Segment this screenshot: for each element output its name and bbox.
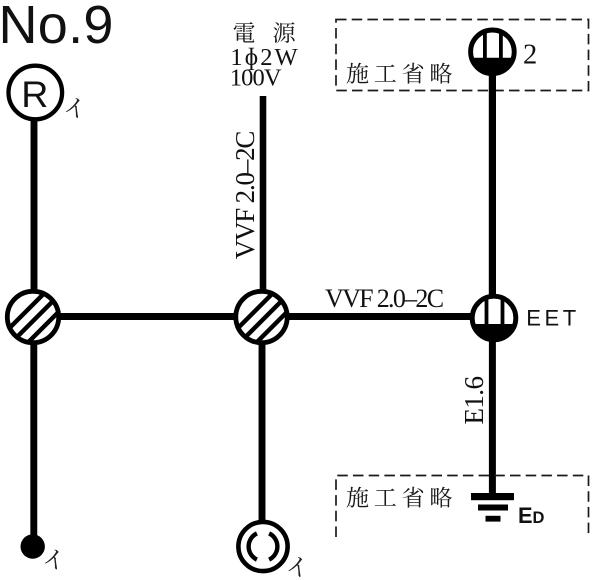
dashed box 施工省略 (bottom) — [336, 476, 589, 538]
wire receptacle 2 to receptacle EET — [489, 74, 496, 295]
svg-text:D: D — [533, 509, 545, 527]
receptacle EET (earth terminal) — [472, 296, 516, 340]
switch イ — [21, 534, 45, 558]
label イ for switch — [43, 550, 61, 570]
svg-text:VVF 2.0–2C: VVF 2.0–2C — [230, 132, 260, 260]
label 施工省略 (bottom) — [347, 487, 452, 508]
svg-text:VVF 2.0–2C: VVF 2.0–2C — [325, 284, 443, 313]
junction box 1 — [0, 265, 73, 378]
wire junction box 1 to switch — [30, 342, 37, 540]
ground symbol ED — [471, 493, 514, 522]
power source label 電源 1φ2W 100V — [230, 22, 300, 92]
receptacle (outlet) 2 — [471, 30, 515, 74]
svg-text:2: 2 — [523, 39, 537, 70]
junction box 2 — [222, 265, 302, 378]
svg-text:EET: EET — [526, 306, 580, 331]
wire junction box 1 to junction box 2 — [57, 313, 237, 320]
label 施工省略 (top) — [347, 63, 452, 84]
dashed box 施工省略 (top) — [336, 20, 589, 91]
svg-text:R: R — [21, 73, 48, 115]
svg-text:E1.6: E1.6 — [459, 377, 489, 425]
wire junction box 2 to ceiling light — [259, 342, 266, 521]
svg-text:E: E — [518, 503, 533, 528]
svg-text:No.9: No.9 — [0, 0, 114, 55]
label イ for R — [64, 98, 82, 118]
room air conditioner R — [9, 66, 63, 120]
label ED — [518, 503, 545, 528]
label イ for ceiling light — [287, 557, 305, 577]
ceiling light (引掛シーリング) イ — [238, 522, 287, 571]
wire junction box 2 to receptacle EET — [286, 313, 471, 320]
power feed wire — [260, 96, 267, 292]
wire R to junction box 1 — [31, 119, 38, 292]
wire EET to ground — [489, 341, 496, 496]
svg-text:100V: 100V — [230, 65, 282, 92]
